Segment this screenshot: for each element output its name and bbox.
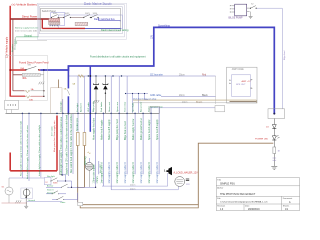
wire brown stub — [58, 80, 60, 88]
svg-text:Bilge float sw feed: Bilge float sw feed — [124, 121, 127, 140]
svg-text:Supply feed 12V cable 2.5mm wi: Supply feed 12V cable 2.5mm wire to the … — [65, 114, 68, 175]
svg-text:POWER LED: POWER LED — [255, 139, 269, 141]
wire red bottom elbow — [10, 153, 57, 171]
box switch panel nested C2 — [38, 5, 124, 37]
wire maroon fuse row mid — [13, 74, 22, 76]
fuse squiggle on H1 — [78, 75, 84, 78]
svg-text:GND cable: GND cable — [150, 95, 162, 97]
switch bottom row2 — [62, 184, 68, 187]
wire verticals above bus — [63, 76, 159, 113]
green vertical labels mid harness — [60, 113, 159, 183]
connector marks right of circle — [186, 179, 189, 181]
box small connector right — [215, 106, 225, 112]
svg-text:Spk neg: Spk neg — [85, 156, 87, 165]
svg-text:4mm cable: 4mm cable — [51, 125, 53, 136]
chassis hatch mid — [39, 82, 45, 85]
wire pink bottom — [2, 202, 28, 204]
svg-text:C:\Users\Dave\Desktop\projects: C:\Users\Dave\Desktop\projects\SCHEMA_1.… — [220, 201, 268, 204]
svg-text:Hailer feed B supply: Hailer feed B supply — [108, 119, 111, 140]
svg-text:AMP +12: AMP +12 — [242, 80, 252, 83]
svg-text:Radio ground feed wr: Radio ground feed wr — [140, 118, 143, 140]
box switch panel A — [40, 9, 120, 31]
svg-text:Fused distribution to all cabi: Fused distribution to all cabin circuits… — [90, 56, 146, 59]
ground below bilge — [250, 12, 252, 17]
svg-text:(+) Vehicle Battery: (+) Vehicle Battery — [12, 2, 38, 6]
box tiny connector brown — [78, 202, 83, 205]
fuse block mid hatched — [22, 73, 40, 76]
component bilge pump IC box — [229, 4, 250, 19]
switch bottom row1 — [51, 178, 57, 181]
svg-text:Author: Author — [217, 186, 223, 189]
wire down from connector — [273, 119, 275, 125]
svg-text:Stereo set: Stereo set — [108, 102, 111, 112]
svg-text:Negative: Negative — [11, 43, 14, 52]
wire brown bottom run — [83, 143, 274, 205]
wire verticals below bus left — [22, 113, 73, 181]
wire purple tails below bus — [78, 113, 84, 132]
component AC source circle — [5, 187, 13, 195]
svg-text:Black: Black — [202, 95, 208, 97]
wire grey companion 59.5 — [60, 150, 66, 175]
svg-text:Speaker wire: Speaker wire — [150, 105, 164, 108]
svg-text:Cabin: Cabin — [60, 202, 65, 204]
wire thick blue vertical 68.4 upper — [67, 66, 69, 88]
svg-text:4mm tinned cable 40A: 4mm tinned cable 40A — [15, 29, 37, 32]
box inner blue B2 — [58, 15, 122, 29]
svg-text:1mm supply cable fd: 1mm supply cable fd — [117, 162, 119, 184]
wire thick blue vertical 68.4 lower — [67, 96, 69, 113]
wire thick blue main loop — [40, 69, 68, 71]
svg-text:Direct Power: Direct Power — [22, 14, 37, 18]
svg-text:Dash switched live: Dash switched live — [94, 18, 115, 21]
switch SW3p — [84, 15, 90, 18]
svg-text:Cabin light feed supply 1.5mm: Cabin light feed supply 1.5mm cable to s… — [60, 116, 63, 175]
pins AMP left — [229, 80, 231, 84]
box switch panel nested C — [39, 7, 122, 34]
box around lamp2 — [21, 188, 32, 199]
component tan connector mid — [76, 133, 79, 146]
svg-text:20cm: 20cm — [130, 185, 136, 187]
svg-text:SW: SW — [28, 65, 31, 67]
svg-text:12V: 12V — [186, 184, 190, 186]
fuse gap component on 68.4 — [67, 90, 69, 95]
svg-text:I2C bus wire: I2C bus wire — [150, 73, 163, 76]
green vertical labels left harness — [20, 120, 41, 179]
svg-text:Spot light: Spot light — [132, 102, 135, 112]
svg-text:Something: Something — [158, 24, 171, 27]
svg-text:Nav light: Nav light — [47, 175, 55, 178]
svg-text:1.5mm wire supply: 1.5mm wire supply — [93, 164, 96, 184]
wire grey lower left — [17, 40, 48, 42]
svg-text:Fish finder: Fish finder — [100, 102, 103, 112]
box switch panel nested D — [37, 3, 126, 39]
svg-text:1.5mm: 1.5mm — [97, 176, 99, 183]
svg-text:20cm: 20cm — [179, 74, 185, 76]
chassis hatch bottom — [15, 200, 21, 203]
svg-text:Anchor: Anchor — [47, 184, 54, 187]
wire switched row B red — [10, 95, 25, 98]
svg-text:SPK OUT: SPK OUT — [236, 84, 246, 86]
svg-text:Nav light: Nav light — [76, 103, 79, 112]
svg-text:Ground: Ground — [24, 34, 32, 37]
switch S2 top right — [251, 6, 256, 9]
fuse block B hatched — [49, 22, 60, 25]
svg-text:Anchor light feed supply 1.5mm: Anchor light feed supply 1.5mm cable to … — [26, 124, 29, 179]
wire right connector box — [268, 109, 285, 119]
svg-text:Fused Direct Power Feed: Fused Direct Power Feed — [19, 61, 49, 65]
pins AMP right — [251, 79, 253, 89]
svg-text:Revision: Revision — [217, 206, 226, 208]
svg-text:20cm: 20cm — [130, 188, 136, 190]
svg-text:AMP CASE: AMP CASE — [232, 68, 244, 71]
svg-text:20cm: 20cm — [179, 95, 185, 97]
resistor R — [273, 147, 276, 154]
svg-text:Sheets: Sheets — [283, 205, 289, 208]
svg-text:Spare one: Spare one — [116, 101, 119, 112]
green vertical labels above bus — [60, 100, 151, 112]
wire switched row A maroon — [13, 90, 25, 92]
svg-text:Interior It: Interior It — [47, 191, 55, 194]
svg-text:Speaker pos: Speaker pos — [76, 117, 79, 131]
switch SW2 — [64, 15, 70, 18]
wire brown pair down to U — [77, 146, 79, 203]
svg-text:Interior light feed supply 1.5: Interior light feed supply 1.5mm cable t… — [38, 125, 41, 176]
component lamp2 — [23, 189, 30, 196]
wire maroon top feed — [10, 18, 49, 20]
svg-text:Battery supply feed wire: Battery supply feed wire — [15, 27, 39, 30]
component hailer mic circle — [175, 177, 185, 187]
svg-text:Brown: Brown — [196, 100, 203, 103]
box bus end — [150, 106, 160, 113]
component loudhailer horn — [164, 167, 172, 175]
svg-text:29/08/2019: 29/08/2019 — [248, 209, 260, 211]
svg-text:1mm supply cable fd: 1mm supply cable fd — [125, 162, 127, 184]
svg-text:Spare feed B supply: Spare feed B supply — [156, 118, 159, 140]
wire red mid feed — [10, 69, 26, 71]
box small purple — [44, 177, 51, 184]
diode D4 — [266, 125, 276, 136]
diode D2 TVS — [103, 76, 109, 113]
svg-text:12V Vehicle supply: 12V Vehicle supply — [5, 36, 8, 58]
svg-text:(+): (+) — [93, 102, 96, 104]
svg-text:Aux power: Aux power — [140, 101, 143, 112]
svg-text:Dash interconnect wiring: Dash interconnect wiring — [101, 29, 129, 32]
svg-text:Stern It: Stern It — [47, 189, 54, 192]
svg-text:Red: Red — [202, 74, 207, 76]
fuse block C hatched — [75, 22, 88, 26]
svg-text:1mm supply cable fd: 1mm supply cable fd — [109, 162, 111, 184]
box AMP CASE — [227, 67, 257, 103]
svg-text:Ground wire: Ground wire — [14, 38, 16, 50]
switch SW4p — [92, 15, 98, 18]
box inner blue B — [51, 13, 65, 26]
wire grey vertical 43.8 — [43, 70, 45, 96]
box AMP bottom dark line — [230, 101, 257, 103]
svg-text:20cm: 20cm — [182, 101, 188, 103]
switch bottom row3 — [57, 196, 63, 199]
switch SW3 — [26, 66, 36, 69]
box connector left — [5, 100, 19, 109]
wire blue dash switched live — [99, 18, 121, 22]
wire blue out lower — [85, 27, 121, 29]
svg-text:30A: 30A — [22, 77, 27, 80]
switch SW1 — [52, 15, 58, 18]
svg-text:1mm supply cable fd: 1mm supply cable fd — [157, 162, 159, 184]
ground symbol bottom — [25, 197, 27, 206]
wire verticals below bus harness — [96, 113, 160, 189]
wire purple bottom2 — [27, 201, 62, 203]
svg-text:Hailer: Hailer — [148, 106, 151, 112]
svg-text:12V: 12V — [151, 34, 153, 39]
wire thin purple right — [257, 8, 283, 109]
svg-text:Cabin light: Cabin light — [60, 101, 63, 112]
wire dark link between switches — [58, 17, 98, 19]
svg-text:VHF radio: VHF radio — [87, 101, 90, 112]
svg-text:Radio supply feed wr: Radio supply feed wr — [132, 118, 135, 140]
svg-text:10A: 10A — [29, 98, 33, 101]
svg-text:Horn 12V: Horn 12V — [100, 164, 102, 173]
wire green stubs left — [15, 37, 17, 44]
svg-text:Hailer feed A supply: Hailer feed A supply — [100, 119, 103, 140]
svg-text:SIMPLE PSU: SIMPLE PSU — [220, 182, 235, 185]
title block — [216, 178, 299, 211]
wire bus horizontal main — [6, 112, 160, 114]
wire purple horizontals bottom to hailer — [102, 185, 168, 187]
wire H1 rail purple — [68, 75, 215, 77]
svg-text:Ground: Ground — [28, 199, 36, 202]
svg-text:A_LOUD_HAILER_12V: A_LOUD_HAILER_12V — [174, 171, 199, 174]
chassis hatch below D1 — [94, 100, 100, 103]
svg-text:DC5.5x2.1mm jack plug: DC5.5x2.1mm jack plug — [133, 98, 157, 100]
wire green ground into panel — [16, 36, 38, 38]
wire battery vertical red main — [9, 6, 11, 96]
wire red drop and lower row — [41, 19, 43, 28]
wire red stub after SW3 — [39, 69, 41, 71]
fuse block A hatched — [49, 18, 60, 21]
box dash area big — [6, 56, 48, 101]
svg-text:1mm supply cable fd: 1mm supply cable fd — [133, 162, 135, 184]
svg-text:Anchor It: Anchor It — [79, 103, 82, 112]
svg-text:1mm supply cable fd: 1mm supply cable fd — [141, 162, 143, 184]
wire maroon branch vertical — [12, 19, 14, 91]
svg-text:Horn relay: Horn relay — [124, 101, 127, 112]
diode D1 TVS — [93, 76, 99, 113]
svg-text:Nav switch feed supply 1.5mm c: Nav switch feed supply 1.5mm cable to th… — [70, 113, 73, 173]
svg-text:Bilge pump live feed: Bilge pump live feed — [117, 119, 119, 140]
wire rows right side — [126, 93, 149, 95]
dots connector row — [50, 25, 58, 26]
box relay tall — [51, 88, 63, 113]
switch bottom row2b — [52, 191, 58, 194]
wire red vertical 57 — [56, 116, 58, 171]
junction dots on bus — [22, 113, 152, 115]
svg-text:Document: Document — [283, 197, 293, 200]
svg-text:Running light feed supply 1.5m: Running light feed supply 1.5mm cable to… — [20, 120, 23, 176]
wire purple top row — [9, 177, 44, 179]
component horn circle — [85, 162, 93, 170]
wire thick blue vertical 90.3 — [89, 66, 91, 132]
svg-text:1mm supply cable fd: 1mm supply cable fd — [149, 162, 151, 184]
svg-text:Main power feed 4mm supply wir: Main power feed 4mm supply wire — [53, 120, 56, 152]
svg-text:Spare feed A supply: Spare feed A supply — [148, 119, 151, 140]
svg-text:Horn supply feed wire: Horn supply feed wire — [93, 117, 96, 140]
svg-text:Bilge feed: Bilge feed — [284, 50, 286, 60]
svg-text:THE PHOTOVOLTAIC EFFECT: THE PHOTOVOLTAIC EFFECT — [220, 193, 256, 196]
box AMP inner purple — [232, 75, 251, 97]
svg-text:BILGE PUMP: BILGE PUMP — [229, 17, 244, 19]
ground right — [271, 167, 277, 170]
LED power — [255, 135, 280, 147]
